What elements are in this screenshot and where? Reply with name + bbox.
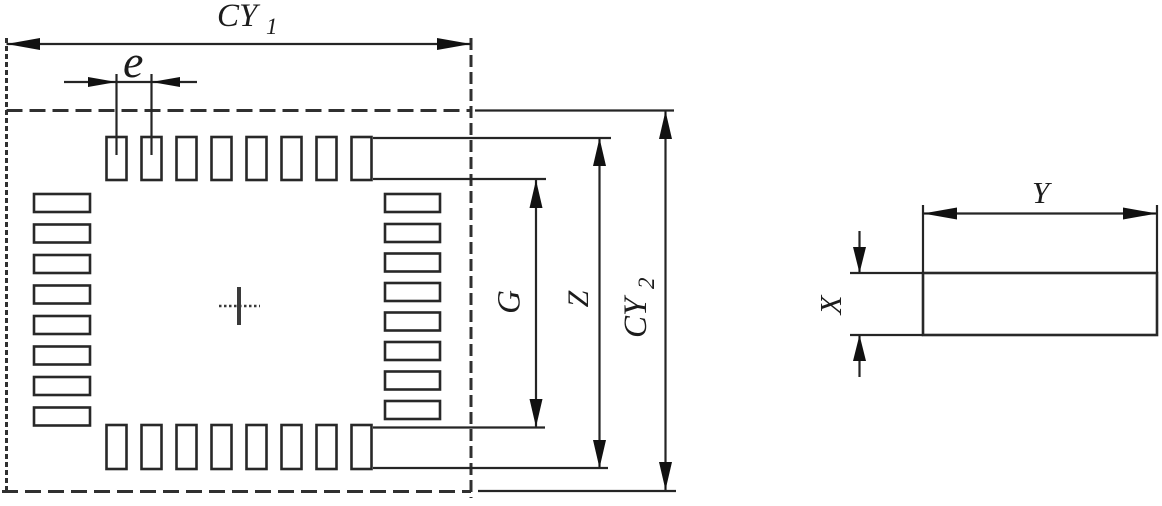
dimension Y extension lines (923, 205, 1157, 273)
dimension Y line with arrows (923, 208, 1157, 220)
detail pad rectangle (923, 273, 1157, 335)
dimension X extension lines (850, 273, 923, 335)
dimension CY1 line with arrows (7, 38, 472, 50)
dimension X line with arrows (853, 231, 866, 377)
label X (rotated) (813, 294, 848, 316)
courtyard outline top edge (dashed) (7, 109, 472, 112)
dimension G line with arrows (530, 180, 543, 427)
svg-text:Y: Y (1032, 175, 1052, 210)
label CY2 (rotated) (618, 278, 659, 339)
right pad column (385, 194, 440, 419)
label Y (1032, 175, 1052, 210)
courtyard outline right edge / CY1 extension line (dashed) (470, 38, 473, 498)
svg-text:X: X (813, 294, 848, 316)
label e (123, 36, 143, 87)
bottom pad row (107, 425, 372, 469)
dimension CY2 line with arrows (659, 111, 672, 490)
courtyard outline bottom edge (dashed) (2, 490, 471, 493)
dimension G connector lines (373, 179, 546, 428)
dimension CY2 extension lines (475, 111, 676, 492)
courtyard outline left edge (dashed) (5, 38, 8, 493)
center cross mark (219, 287, 260, 325)
svg-text:Z: Z (562, 290, 595, 307)
svg-text:e: e (123, 36, 143, 87)
dimension e line with arrows (64, 77, 197, 87)
svg-text:2: 2 (634, 278, 659, 290)
dimension e extension lines (117, 74, 152, 155)
left pad column (34, 194, 90, 426)
dimension Z connector lines (373, 138, 611, 468)
svg-text:G: G (492, 290, 528, 314)
svg-text:1: 1 (266, 14, 278, 39)
label CY1 (217, 0, 278, 39)
top pad row P1-P8 (107, 137, 372, 180)
label Z (rotated) (562, 290, 595, 307)
svg-text:CY: CY (217, 0, 261, 34)
svg-text:CY: CY (618, 294, 654, 338)
label G (rotated) (492, 290, 528, 314)
dimension Z line with arrows (593, 138, 606, 468)
